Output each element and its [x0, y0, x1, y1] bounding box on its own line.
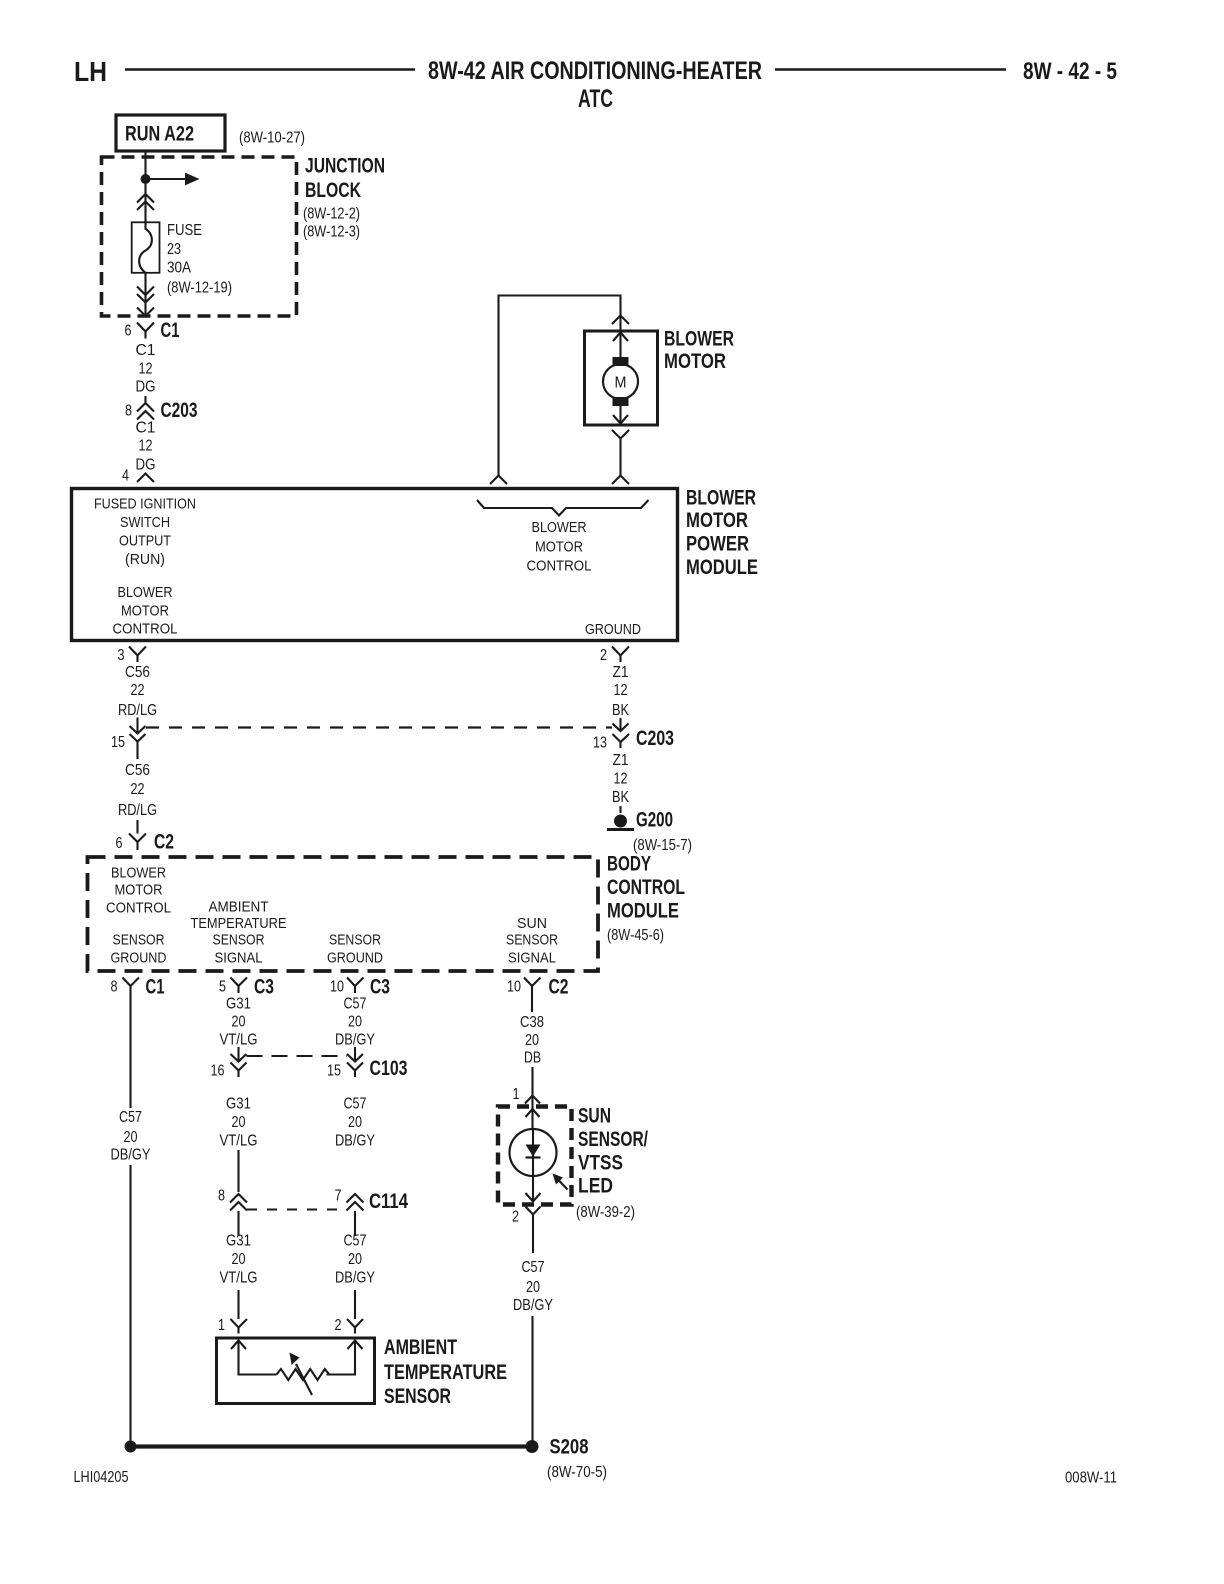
svg-text:C2: C2: [549, 976, 569, 999]
svg-text:(8W-45-6): (8W-45-6): [607, 927, 664, 944]
svg-text:BLOCK: BLOCK: [305, 179, 361, 202]
wire label C57 20 DB/GY: [513, 1259, 553, 1314]
svg-text:BLOWER: BLOWER: [686, 487, 756, 510]
pin label FUSED IGNITION SWITCH OUTPUT (RUN): [94, 496, 196, 569]
wire stem to C203 left: [136, 718, 138, 734]
svg-text:DB/GY: DB/GY: [335, 1133, 375, 1150]
svg-text:7: 7: [335, 1188, 342, 1205]
splice bus wire: [131, 1444, 533, 1448]
connector C203 pin 8: [125, 396, 198, 422]
wire to ambient sensor pin 1: [237, 1290, 239, 1319]
svg-text:ATC: ATC: [578, 85, 613, 113]
svg-text:C3: C3: [370, 976, 390, 999]
thermistor zigzag: [277, 1369, 330, 1380]
connector C203 pin 15 (left): [111, 734, 146, 759]
svg-text:AMBIENT: AMBIENT: [384, 1336, 457, 1359]
svg-text:BLOWER: BLOWER: [118, 584, 173, 601]
svg-text:G31: G31: [226, 1096, 251, 1113]
svg-text:3: 3: [118, 647, 125, 664]
branch arrow wire: [146, 178, 186, 180]
svg-text:C57: C57: [344, 996, 367, 1013]
svg-text:AMBIENT: AMBIENT: [209, 899, 269, 916]
svg-text:22: 22: [131, 682, 145, 699]
blower motor label: [664, 328, 734, 374]
connector C3 pin 10: [330, 976, 390, 999]
svg-text:1: 1: [218, 1317, 225, 1334]
brace over blower motor control pins: [477, 500, 649, 516]
LED triangle: [526, 1145, 541, 1157]
svg-text:C203: C203: [161, 399, 198, 422]
svg-text:10: 10: [330, 979, 344, 996]
svg-text:10: 10: [507, 979, 521, 996]
wire label C57 20 DB/GY (mid): [335, 1096, 375, 1150]
BMPM: [72, 476, 759, 641]
LED pointer arrow: [553, 1174, 568, 1190]
svg-text:SWITCH: SWITCH: [120, 514, 170, 531]
pin label BLOWER MOTOR CONTROL (brace): [527, 519, 592, 575]
wire from motor to module: [619, 445, 621, 476]
svg-text:LH: LH: [74, 56, 107, 87]
ambient temperature sensor label: [384, 1336, 507, 1408]
svg-text:C1: C1: [161, 319, 180, 342]
wire label C1 12 DG: [136, 420, 156, 474]
junction dot: [141, 174, 151, 184]
svg-text:(8W-12-3): (8W-12-3): [303, 224, 360, 241]
svg-text:C114: C114: [369, 1190, 408, 1213]
svg-text:CONTROL: CONTROL: [113, 621, 178, 638]
svg-text:VT/LG: VT/LG: [220, 1270, 258, 1287]
wire down to splice: [531, 1316, 533, 1447]
svg-text:15: 15: [327, 1063, 341, 1080]
motor brush top: [613, 357, 629, 366]
arrowhead into C203 left: [130, 726, 146, 734]
wire label G31 20 VT/LG (lower): [220, 1233, 258, 1287]
svg-text:DB/GY: DB/GY: [513, 1297, 553, 1314]
svg-text:SENSOR: SENSOR: [506, 932, 558, 949]
arrow into motor top: [613, 333, 628, 342]
junction block dashed box: [102, 157, 297, 316]
svg-text:G200: G200: [636, 809, 673, 832]
svg-text:2: 2: [600, 647, 607, 664]
svg-text:20: 20: [525, 1032, 539, 1049]
SUNSENSOR: [498, 993, 648, 1447]
svg-text:(8W-12-2): (8W-12-2): [303, 206, 360, 223]
svg-text:OUTPUT: OUTPUT: [119, 533, 171, 550]
svg-text:(RUN): (RUN): [125, 551, 165, 568]
arrow into box right: [348, 1341, 363, 1350]
svg-text:C1: C1: [136, 420, 156, 437]
connector C1 pin 8: [111, 976, 165, 999]
arrow at sun sensor bottom: [526, 1193, 541, 1202]
wire label C56 22 RD/LG: [118, 762, 157, 819]
svg-text:CONTROL: CONTROL: [527, 558, 592, 575]
right internal wire: [327, 1341, 356, 1375]
connector C203 pin 13 (right): [593, 727, 674, 752]
exit arrowhead at junction block edge: [137, 308, 154, 317]
svg-text:(8W-10-27): (8W-10-27): [239, 130, 305, 147]
svg-text:C57: C57: [344, 1096, 367, 1113]
svg-text:VT/LG: VT/LG: [220, 1133, 258, 1150]
svg-text:13: 13: [593, 735, 607, 752]
arrow inside sun sensor top: [526, 1109, 540, 1117]
svg-text:SENSOR: SENSOR: [113, 932, 165, 949]
wire below fuse: [144, 273, 146, 316]
entry chevron left top: [490, 476, 507, 485]
module label BLOWER MOTOR POWER MODULE: [686, 487, 758, 580]
svg-text:12: 12: [614, 682, 628, 699]
wire below sun sensor: [532, 1220, 534, 1254]
svg-text:SIGNAL: SIGNAL: [508, 950, 556, 967]
wire below motor: [619, 406, 621, 424]
svg-text:16: 16: [211, 1063, 225, 1080]
svg-text:(8W-39-2): (8W-39-2): [576, 1204, 635, 1221]
wire down to C114 left: [237, 1150, 239, 1192]
LED bar: [526, 1156, 541, 1158]
svg-text:(8W-70-5): (8W-70-5): [547, 1464, 607, 1481]
blower motor box: [585, 331, 658, 425]
svg-text:MOTOR: MOTOR: [115, 882, 163, 899]
arrow at motor box bottom: [613, 415, 628, 424]
junction block label: [303, 155, 385, 241]
svg-text:C57: C57: [344, 1233, 367, 1250]
arrow into box left: [231, 1341, 246, 1350]
svg-text:5: 5: [219, 979, 226, 996]
svg-text:8W-42 AIR CONDITIONING-HEATER: 8W-42 AIR CONDITIONING-HEATER: [428, 57, 762, 85]
connector pin 3 below module: [118, 647, 147, 665]
svg-text:RD/LG: RD/LG: [118, 702, 157, 719]
body control module dashed box: [88, 857, 599, 971]
POWER: [102, 115, 386, 485]
connector C2 pin 6: [116, 831, 175, 854]
svg-text:SENSOR: SENSOR: [213, 932, 265, 949]
dashed connector line C203: [146, 726, 612, 728]
connector chevrons below fuse: [137, 287, 154, 303]
wire from C2 pin 10 down: [531, 993, 533, 1012]
wire label C56 22 RD/LG: [118, 664, 157, 719]
svg-text:(8W-15-7): (8W-15-7): [633, 837, 692, 854]
svg-text:LHI04205: LHI04205: [74, 1469, 129, 1486]
svg-text:BLOWER: BLOWER: [664, 328, 734, 351]
wire below C114 left: [237, 1211, 239, 1236]
connector C114 pin 7 chevrons (right): [335, 1188, 409, 1214]
svg-text:20: 20: [526, 1279, 540, 1296]
arrowhead into C203 right: [613, 724, 629, 732]
svg-text:6: 6: [125, 323, 132, 340]
svg-text:008W-11: 008W-11: [1065, 1470, 1117, 1487]
wire label Z1 12 BK: [612, 664, 629, 719]
splice S208 dot: [526, 1440, 539, 1453]
svg-text:20: 20: [124, 1129, 138, 1146]
svg-text:2: 2: [335, 1317, 342, 1334]
svg-text:8W - 42 - 5: 8W - 42 - 5: [1023, 58, 1117, 85]
svg-text:1: 1: [513, 1086, 520, 1103]
arrowhead into C103 right: [347, 1054, 363, 1062]
header rule right: [775, 68, 1006, 70]
svg-text:22: 22: [131, 781, 145, 798]
svg-text:12: 12: [139, 361, 153, 378]
motor M circle: [603, 364, 638, 399]
svg-text:SIGNAL: SIGNAL: [215, 950, 263, 967]
svg-text:C38: C38: [520, 1014, 544, 1031]
svg-text:M: M: [615, 375, 627, 392]
svg-text:BK: BK: [612, 789, 629, 806]
connector C103 pin 16 (left): [211, 1063, 247, 1080]
BUS: [125, 1436, 608, 1482]
svg-text:2: 2: [512, 1209, 519, 1226]
svg-text:SENSOR: SENSOR: [329, 932, 381, 949]
svg-text:SUN: SUN: [578, 1105, 611, 1128]
pin label SENSOR GROUND (mid): [327, 932, 383, 967]
svg-text:C56: C56: [125, 664, 150, 681]
svg-text:BODY: BODY: [607, 853, 651, 876]
junction dot left: [125, 1441, 137, 1453]
AMBIENT: [217, 1317, 508, 1408]
svg-text:FUSED IGNITION: FUSED IGNITION: [94, 496, 196, 513]
svg-text:30A: 30A: [167, 260, 191, 277]
connector pin 2 below module: [600, 647, 629, 665]
svg-text:VTSS: VTSS: [578, 1152, 623, 1175]
wire from RUN A22 into junction block: [144, 151, 146, 222]
svg-text:CONTROL: CONTROL: [607, 876, 685, 899]
connector chevrons above fuse: [137, 194, 154, 210]
wire label G31 20 VT/LG (upper): [220, 996, 258, 1049]
svg-text:SENSOR/: SENSOR/: [578, 1128, 648, 1151]
header rule left: [125, 68, 415, 70]
MIDWIRES: [111, 647, 692, 855]
svg-text:RD/LG: RD/LG: [118, 802, 157, 819]
wire stem into C103 left: [237, 1047, 239, 1061]
module label BODY CONTROL MODULE: [607, 853, 685, 945]
wire label C1 12 DG: [136, 342, 156, 396]
svg-text:VT/LG: VT/LG: [220, 1032, 258, 1049]
node RUN A22 box: [116, 115, 225, 151]
thermistor diagonal arrow: [290, 1353, 313, 1396]
svg-text:POWER: POWER: [686, 533, 749, 556]
svg-text:MOTOR: MOTOR: [664, 350, 726, 373]
sun sensor dashed box: [498, 1107, 572, 1205]
svg-text:(8W-12-19): (8W-12-19): [167, 280, 232, 297]
svg-text:G31: G31: [226, 996, 251, 1013]
wire stem to ground: [619, 806, 621, 813]
pin 1 entry chevron: [513, 1086, 541, 1104]
svg-text:C2: C2: [154, 831, 174, 854]
connector pin 1 ambient sensor: [218, 1317, 247, 1334]
wire stem to C203 right: [619, 718, 621, 731]
svg-text:GROUND: GROUND: [327, 950, 383, 967]
wire below C114 right: [354, 1211, 356, 1236]
connector C3 pin 5: [219, 976, 274, 999]
wire label Z1 12 BK: [612, 752, 629, 806]
pin label SENSOR GROUND (left): [111, 932, 167, 967]
svg-text:8: 8: [125, 403, 132, 420]
svg-text:DB: DB: [524, 1050, 541, 1067]
svg-text:C3: C3: [254, 976, 274, 999]
svg-text:23: 23: [167, 241, 181, 258]
svg-text:G31: G31: [226, 1233, 251, 1250]
fuse 23 body: [132, 222, 160, 272]
svg-text:DB/GY: DB/GY: [111, 1147, 151, 1164]
BCM: [88, 853, 686, 999]
COLUMNS: [111, 993, 409, 1447]
svg-text:TEMPERATURE: TEMPERATURE: [384, 1361, 507, 1384]
wire stem into C103 right: [354, 1047, 356, 1061]
svg-text:BK: BK: [612, 702, 629, 719]
svg-text:MODULE: MODULE: [607, 900, 679, 923]
motor brush bottom: [613, 397, 629, 406]
connector C103 pin 15 (right): [327, 1057, 408, 1080]
svg-text:MODULE: MODULE: [686, 556, 758, 579]
svg-text:C56: C56: [125, 762, 150, 779]
svg-text:20: 20: [232, 1114, 246, 1131]
svg-text:GROUND: GROUND: [111, 950, 167, 967]
connector C1 pin 6: [125, 319, 180, 342]
left internal wire: [239, 1341, 277, 1375]
wire to ambient sensor pin 2: [354, 1290, 356, 1319]
ambient temperature sensor box: [217, 1338, 375, 1404]
svg-text:20: 20: [348, 1114, 362, 1131]
MOTOR: [499, 296, 735, 476]
svg-text:LED: LED: [578, 1175, 613, 1198]
connector C2 pin 10: [507, 976, 569, 999]
svg-text:MOTOR: MOTOR: [686, 509, 748, 532]
wire from module left top up and over to motor: [499, 296, 621, 476]
svg-text:SENSOR: SENSOR: [384, 1385, 451, 1408]
wire label C57 20 DB/GY: [111, 1109, 151, 1164]
svg-text:4: 4: [122, 468, 129, 485]
pin 4 entry chevron: [122, 468, 154, 485]
wire to C2 connector: [136, 820, 138, 834]
svg-text:Z1: Z1: [613, 664, 629, 681]
wire label C38 20 DB: [520, 1014, 544, 1067]
chevron above motor box: [612, 316, 629, 325]
svg-text:DG: DG: [136, 457, 156, 474]
pin label BLOWER MOTOR CONTROL (left): [113, 584, 178, 638]
svg-text:DB/GY: DB/GY: [335, 1032, 375, 1049]
wire label C57 20 DB/GY (upper): [335, 996, 375, 1049]
svg-text:6: 6: [116, 835, 123, 852]
pin label BLOWER MOTOR CONTROL: [106, 865, 171, 917]
svg-text:8: 8: [111, 979, 118, 996]
svg-text:20: 20: [348, 1014, 362, 1031]
svg-text:20: 20: [232, 1014, 246, 1031]
pin label AMBIENT TEMPERATURE SENSOR SIGNAL: [191, 899, 287, 967]
svg-text:GROUND: GROUND: [585, 621, 641, 638]
wire through LED: [532, 1130, 534, 1201]
svg-text:C57: C57: [522, 1259, 545, 1276]
svg-text:C1: C1: [146, 976, 165, 999]
svg-text:S208: S208: [550, 1436, 589, 1459]
svg-text:20: 20: [232, 1251, 246, 1268]
arrowhead into C103 left: [231, 1054, 247, 1062]
connector pin 2 ambient sensor: [335, 1317, 364, 1334]
svg-text:15: 15: [111, 734, 125, 751]
blower motor power module box: [72, 489, 678, 641]
dashed connector line C114: [247, 1209, 347, 1211]
wire label G31 20 VT/LG (mid): [220, 1096, 258, 1150]
svg-text:FUSE: FUSE: [167, 222, 202, 239]
wire to sun sensor: [531, 1067, 533, 1130]
wire label C57 20 DB/GY (lower): [335, 1233, 375, 1287]
svg-text:C57: C57: [119, 1109, 142, 1126]
wire down to splice bus: [129, 1165, 131, 1447]
svg-text:SUN: SUN: [517, 915, 547, 932]
wire sensor ground C1 pin 8 down: [129, 993, 131, 1108]
connector pin 2 below sun sensor: [512, 1207, 541, 1226]
svg-text:CONTROL: CONTROL: [106, 900, 171, 917]
svg-text:12: 12: [139, 438, 153, 455]
branch arrowhead: [185, 173, 200, 186]
svg-text:MOTOR: MOTOR: [121, 603, 169, 620]
dashed connector line C103: [247, 1055, 348, 1057]
svg-text:12: 12: [614, 771, 628, 788]
svg-text:C203: C203: [636, 727, 674, 750]
svg-text:8: 8: [218, 1188, 225, 1205]
svg-text:BLOWER: BLOWER: [532, 519, 587, 536]
svg-text:C1: C1: [136, 342, 156, 359]
svg-text:JUNCTION: JUNCTION: [305, 155, 385, 178]
LED circle: [510, 1129, 557, 1176]
connector C114 pin 8 chevrons (left): [218, 1188, 247, 1211]
ground G200 symbol: [607, 815, 634, 830]
connector Y below motor box: [612, 430, 629, 445]
svg-text:MOTOR: MOTOR: [535, 539, 583, 556]
svg-text:Z1: Z1: [613, 752, 629, 769]
svg-text:DG: DG: [136, 379, 156, 396]
wire to motor brush: [619, 333, 621, 358]
svg-text:BLOWER: BLOWER: [111, 865, 166, 882]
HEADER: [74, 56, 1118, 1487]
entry chevron right top: [612, 476, 629, 485]
svg-text:DB/GY: DB/GY: [335, 1270, 375, 1287]
svg-text:TEMPERATURE: TEMPERATURE: [191, 915, 287, 932]
svg-text:C103: C103: [370, 1057, 408, 1080]
svg-text:20: 20: [348, 1251, 362, 1268]
fuse element curve: [139, 222, 152, 272]
svg-text:RUN A22: RUN A22: [125, 123, 194, 146]
pin label SUN SENSOR SIGNAL: [506, 915, 558, 967]
sun sensor label: [576, 1105, 648, 1222]
fuse label FUSE 23 30A (8W-12-19): [167, 222, 232, 297]
